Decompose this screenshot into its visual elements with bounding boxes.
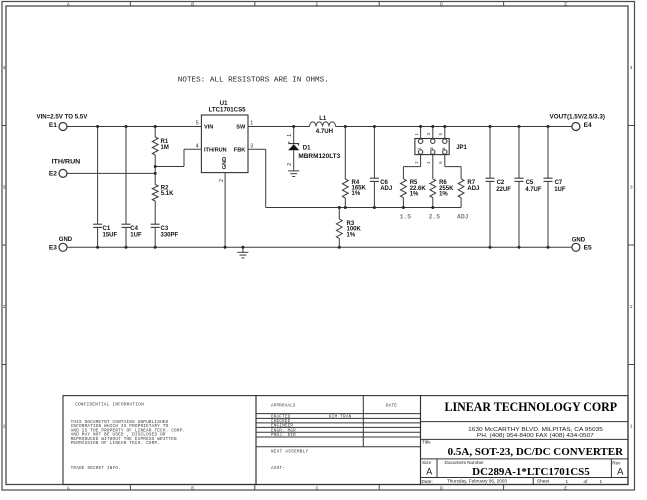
svg-text:GND: GND	[222, 157, 228, 169]
svg-text:330PF: 330PF	[161, 233, 179, 239]
svg-text:E: E	[564, 485, 567, 491]
svg-text:ITH/RUN: ITH/RUN	[204, 147, 227, 153]
svg-text:1: 1	[630, 424, 633, 430]
svg-text:Rev: Rev	[612, 460, 621, 465]
svg-text:Title: Title	[422, 439, 431, 444]
svg-text:4.7UF: 4.7UF	[525, 187, 542, 193]
svg-text:1%: 1%	[352, 191, 361, 197]
svg-text:PH. (408) 954-8400 FAX (408): PH. (408) 954-8400 FAX (408) 434-0507	[477, 433, 594, 439]
svg-text:MBRM120LT3: MBRM120LT3	[298, 153, 340, 160]
svg-text:1.5: 1.5	[400, 213, 412, 220]
svg-text:L1: L1	[319, 116, 327, 122]
svg-text:1: 1	[566, 479, 569, 484]
svg-text:0.5A, SOT-23, DC/DC CONVERTER: 0.5A, SOT-23, DC/DC CONVERTER	[448, 446, 623, 458]
svg-text:4: 4	[3, 65, 6, 71]
svg-text:C5: C5	[526, 180, 534, 186]
svg-text:PERMISSION OF LINEAR TECH. COR: PERMISSION OF LINEAR TECH. CORP.	[71, 441, 160, 446]
svg-text:D1: D1	[303, 145, 311, 151]
svg-text:2: 2	[219, 179, 225, 182]
svg-text:1: 1	[600, 479, 603, 484]
svg-text:Date:: Date:	[422, 479, 433, 484]
svg-text:5: 5	[196, 121, 199, 127]
svg-text:22UF: 22UF	[496, 187, 511, 193]
svg-text:GND: GND	[59, 237, 73, 243]
svg-text:4: 4	[196, 144, 199, 150]
svg-text:3: 3	[3, 185, 6, 191]
svg-text:LTC1701CS5: LTC1701CS5	[209, 106, 246, 113]
svg-text:Document Number: Document Number	[445, 460, 485, 465]
svg-text:GND: GND	[572, 238, 586, 244]
svg-text:APPROVALS: APPROVALS	[271, 404, 296, 409]
svg-text:C1: C1	[103, 226, 111, 232]
svg-text:D: D	[440, 485, 443, 491]
svg-text:1: 1	[3, 424, 6, 430]
svg-text:E3: E3	[49, 244, 57, 251]
svg-text:ADJ: ADJ	[457, 213, 469, 220]
svg-text:ASST-: ASST-	[271, 466, 285, 471]
svg-text:4: 4	[630, 65, 633, 71]
svg-text:of: of	[584, 479, 589, 484]
svg-text:VIN=2.5V TO 5.5V: VIN=2.5V TO 5.5V	[37, 114, 88, 121]
svg-text:VIN: VIN	[204, 124, 213, 130]
svg-text:VOUT(1.5V/2.5/3.3): VOUT(1.5V/2.5/3.3)	[550, 114, 606, 121]
svg-text:4.7UH: 4.7UH	[316, 128, 334, 135]
svg-text:Size: Size	[422, 460, 432, 465]
svg-text:E5: E5	[584, 245, 592, 252]
svg-text:2: 2	[287, 163, 293, 166]
svg-text:15UF: 15UF	[103, 233, 118, 239]
svg-text:C6: C6	[380, 180, 388, 186]
svg-text:E1: E1	[49, 122, 57, 129]
svg-text:DATE: DATE	[386, 404, 397, 409]
svg-text:D: D	[440, 1, 443, 7]
svg-text:2.5: 2.5	[429, 213, 441, 220]
svg-text:B: B	[191, 1, 194, 7]
svg-text:C: C	[316, 1, 319, 7]
svg-text:NOTES: ALL RESISTORS ARE IN OH: NOTES: ALL RESISTORS ARE IN OHMS.	[178, 76, 329, 84]
svg-text:Thursday, February 06, 2003: Thursday, February 06, 2003	[447, 479, 507, 484]
svg-text:A: A	[67, 485, 70, 491]
svg-text:3: 3	[630, 185, 633, 191]
svg-text:2: 2	[630, 304, 633, 310]
svg-text:1UF: 1UF	[554, 187, 566, 193]
svg-text:CONFIDENTIAL INFORMATION: CONFIDENTIAL INFORMATION	[75, 403, 144, 408]
svg-text:1M: 1M	[161, 145, 169, 151]
svg-text:1%: 1%	[439, 192, 448, 198]
svg-text:E: E	[564, 1, 567, 7]
svg-text:NEXT ASSEMBLY: NEXT ASSEMBLY	[271, 449, 309, 454]
svg-text:1%: 1%	[347, 232, 356, 238]
svg-text:C7: C7	[555, 180, 563, 186]
svg-text:E2: E2	[49, 171, 57, 178]
svg-text:A: A	[617, 467, 624, 478]
svg-text:PROJ. DIR: PROJ. DIR	[271, 433, 296, 438]
svg-text:C4: C4	[130, 226, 138, 232]
svg-text:3: 3	[250, 144, 253, 150]
svg-text:DC289A-1*LTC1701CS5: DC289A-1*LTC1701CS5	[472, 467, 590, 478]
svg-text:LINEAR TECHNOLOGY CORP: LINEAR TECHNOLOGY CORP	[445, 400, 618, 414]
svg-text:1: 1	[250, 121, 253, 127]
svg-text:B: B	[191, 485, 194, 491]
svg-text:1UF: 1UF	[130, 233, 142, 239]
svg-text:ITH/RUN: ITH/RUN	[52, 159, 81, 166]
svg-text:A: A	[67, 1, 70, 7]
svg-text:C: C	[316, 485, 319, 491]
svg-text:SW: SW	[236, 124, 246, 130]
svg-text:1%: 1%	[410, 192, 419, 198]
svg-text:5.1K: 5.1K	[161, 191, 174, 197]
svg-text:ADJ: ADJ	[467, 186, 479, 192]
svg-text:1: 1	[287, 134, 293, 137]
svg-text:TRADE SECRET INFO.: TRADE SECRET INFO.	[71, 466, 121, 471]
svg-text:C2: C2	[497, 180, 505, 186]
svg-text:C3: C3	[161, 226, 169, 232]
svg-text:ADJ: ADJ	[380, 186, 392, 192]
svg-text:A: A	[426, 466, 432, 476]
svg-text:FBK: FBK	[234, 147, 246, 153]
svg-text:JP1: JP1	[456, 145, 467, 151]
svg-text:Sheet: Sheet	[537, 479, 550, 484]
svg-text:E4: E4	[584, 122, 592, 129]
svg-text:2: 2	[3, 304, 6, 310]
svg-text:KIM TRAN: KIM TRAN	[329, 414, 352, 419]
